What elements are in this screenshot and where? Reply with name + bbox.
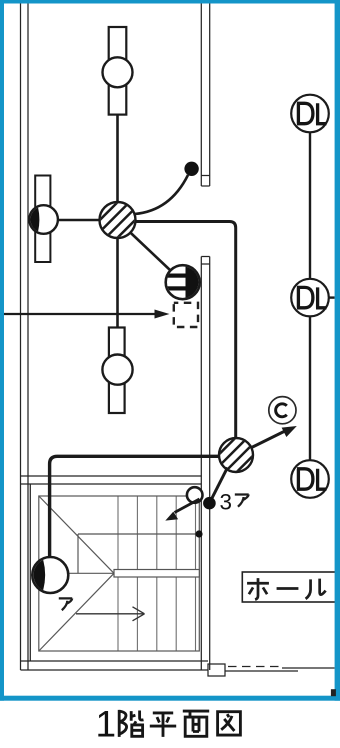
svg-text:3: 3: [220, 490, 233, 515]
svg-text:1: 1: [96, 704, 117, 745]
